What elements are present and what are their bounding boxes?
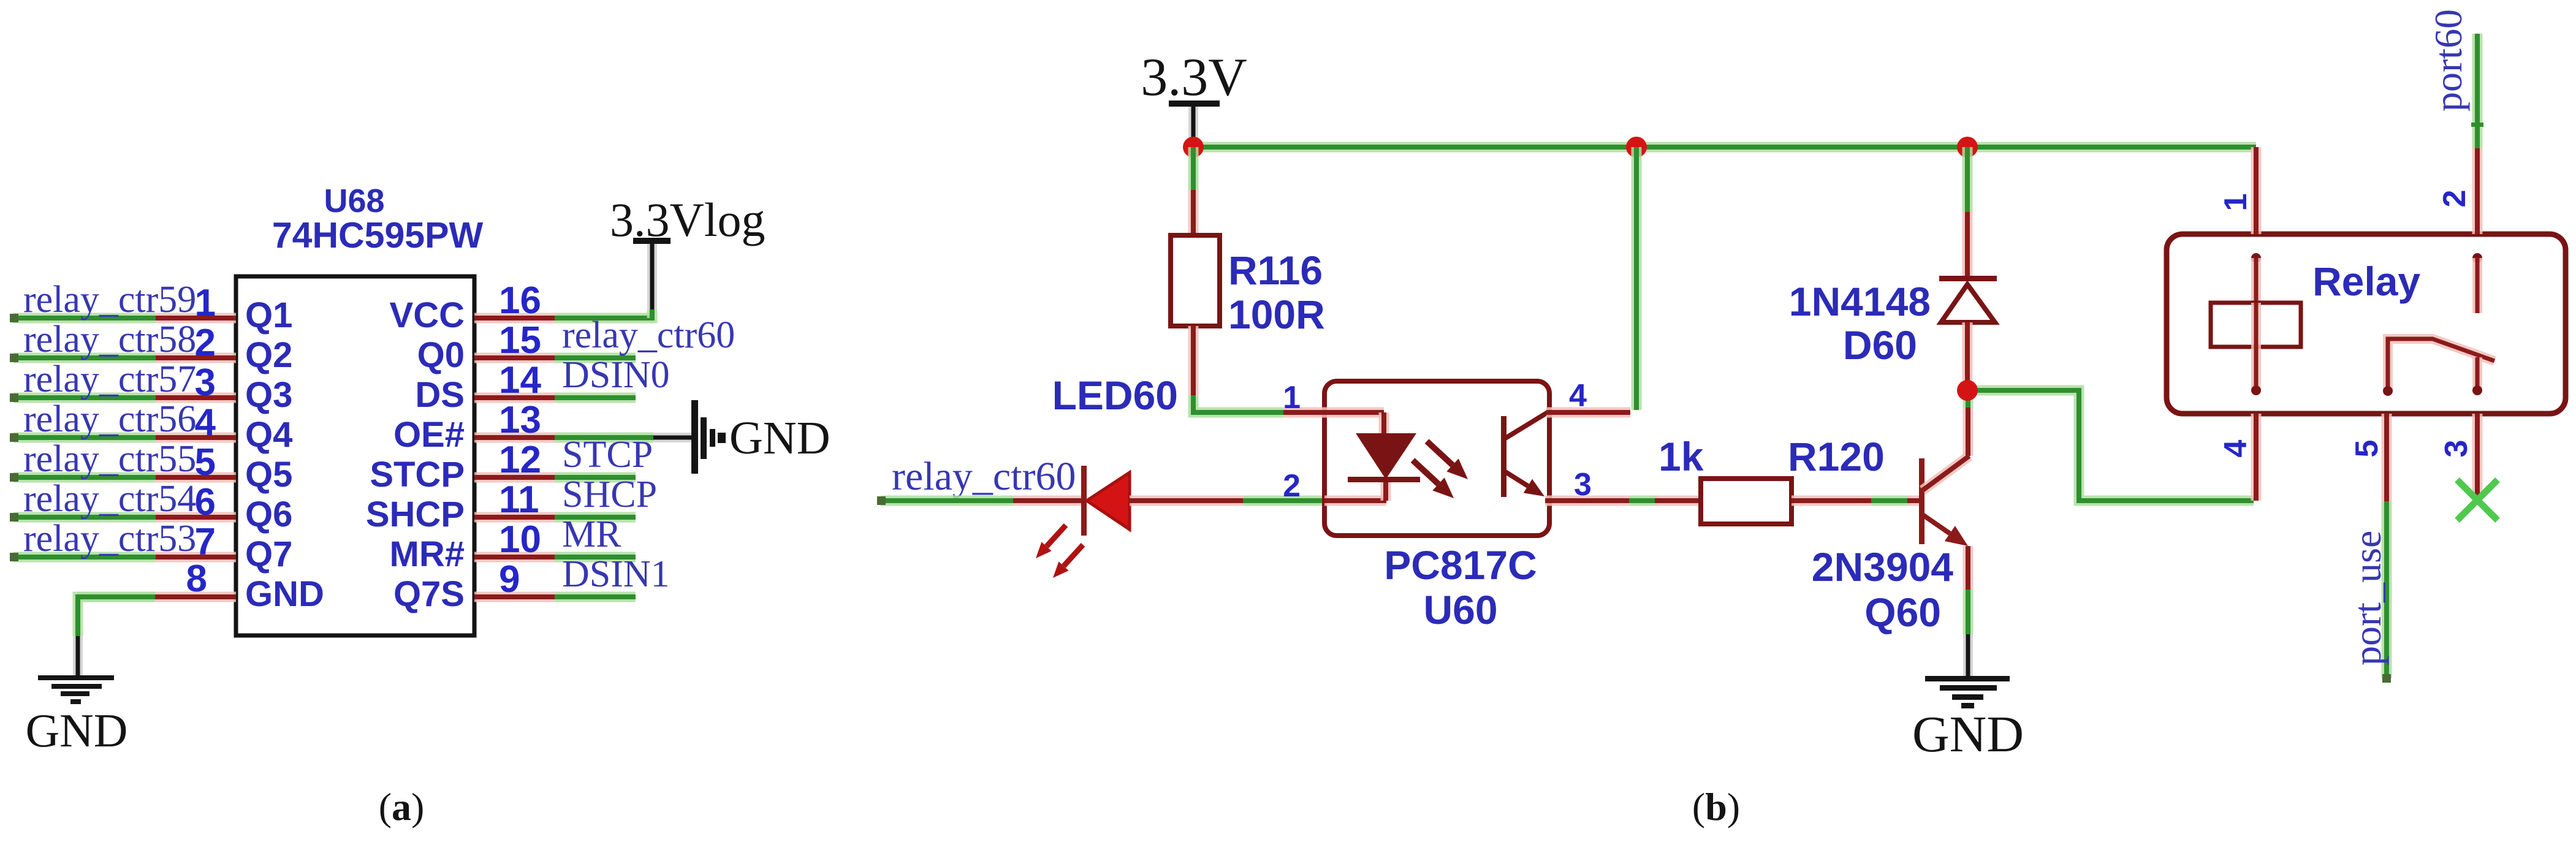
pin 1 of U60 bbox=[1283, 408, 1384, 418]
IC U68 74HC595PW body bbox=[236, 276, 474, 635]
wire from pin 14 bbox=[555, 393, 636, 403]
net label DSIN1 bbox=[562, 553, 670, 595]
pin name VCC bbox=[390, 295, 465, 335]
net label STCP bbox=[562, 434, 653, 476]
pin number 3 bbox=[195, 362, 216, 404]
pin name Q3 bbox=[245, 375, 292, 415]
wire net port_use bbox=[2382, 501, 2391, 683]
svg-text:SHCP: SHCP bbox=[366, 495, 465, 534]
pin name Q1 bbox=[245, 295, 292, 335]
IC U68 refdes label bbox=[324, 183, 384, 219]
svg-text:5: 5 bbox=[195, 441, 216, 484]
svg-text:GND: GND bbox=[26, 704, 128, 757]
relay body bbox=[2167, 234, 2566, 414]
svg-text:GND: GND bbox=[245, 574, 324, 614]
pin number 1 (U60) bbox=[1283, 380, 1301, 415]
wire from pin 11 bbox=[555, 512, 636, 523]
svg-text:Q60: Q60 bbox=[1864, 590, 1941, 635]
svg-text:4: 4 bbox=[195, 401, 216, 444]
junction node D60 anode bbox=[1957, 380, 1978, 401]
svg-text:10: 10 bbox=[499, 518, 541, 561]
svg-text:relay_ctr60: relay_ctr60 bbox=[892, 454, 1076, 499]
svg-text:11: 11 bbox=[499, 479, 539, 521]
pin name Q6 bbox=[245, 495, 292, 534]
svg-text:15: 15 bbox=[499, 319, 541, 362]
svg-text:LED60: LED60 bbox=[1052, 373, 1178, 418]
caption (a) bbox=[379, 785, 425, 829]
resistor R116 bbox=[1171, 235, 1220, 326]
svg-text:7: 7 bbox=[195, 521, 216, 563]
pin 4 of U60 bbox=[1546, 408, 1630, 418]
svg-text:D60: D60 bbox=[1843, 322, 1917, 368]
ground GND (pin 13) bbox=[691, 400, 830, 474]
svg-text:R116: R116 bbox=[1228, 248, 1323, 293]
pin number 5 bbox=[195, 441, 216, 484]
wire Q60 collector to node bbox=[1963, 395, 1974, 456]
wire net port60 bbox=[2471, 34, 2483, 148]
net label port60 bbox=[2426, 9, 2470, 112]
wire from pin 13 bbox=[555, 433, 653, 443]
net label relay_ctr55 bbox=[23, 438, 196, 480]
label PC817C bbox=[1384, 542, 1537, 588]
transistor Q60 bbox=[1919, 456, 1969, 546]
pin name DS bbox=[415, 375, 465, 415]
svg-text:3: 3 bbox=[1574, 467, 1592, 503]
power symbol 3.3V bbox=[1141, 48, 1247, 140]
svg-text:74HC595PW: 74HC595PW bbox=[272, 215, 484, 256]
net label relay_ctr53 bbox=[23, 518, 196, 559]
pin name Q2 bbox=[245, 335, 292, 375]
pin name Q5 bbox=[245, 455, 292, 495]
relay contact pin3 side bbox=[2472, 357, 2482, 395]
junction above opto pin4 bbox=[1626, 137, 1647, 157]
wire rail to relay pin 1 bbox=[2251, 147, 2262, 234]
svg-text:VCC: VCC bbox=[390, 295, 465, 335]
net label port_use bbox=[2346, 531, 2389, 666]
pin 4 of relay bbox=[2251, 414, 2262, 501]
pin number 2 bbox=[195, 322, 216, 364]
label Relay bbox=[2312, 259, 2420, 304]
pin name MR# bbox=[390, 534, 465, 574]
svg-text:MR#: MR# bbox=[390, 534, 465, 574]
pin number 14 bbox=[499, 359, 541, 401]
pin 2 of U60 bbox=[1324, 496, 1386, 506]
svg-text:1k: 1k bbox=[1658, 434, 1704, 479]
relay switch blade bbox=[2383, 339, 2494, 396]
svg-text:Q3: Q3 bbox=[245, 375, 292, 415]
relay contact pin2 side bbox=[2472, 253, 2482, 313]
svg-text:GND: GND bbox=[729, 412, 830, 464]
optocoupler U60 body bbox=[1324, 381, 1549, 536]
pin 15 of U68 bbox=[474, 353, 555, 363]
pin name GND bbox=[245, 574, 324, 614]
pin number 3 (relay) bbox=[2439, 440, 2474, 458]
pin number 7 bbox=[195, 521, 216, 563]
wire pin13 to GND bbox=[653, 433, 693, 442]
net label MR bbox=[562, 514, 621, 555]
wire pin8 to ground bbox=[78, 597, 155, 677]
caption (b) bbox=[1692, 785, 1740, 829]
pin number 2 (U60) bbox=[1283, 468, 1301, 504]
svg-text:U68: U68 bbox=[324, 183, 384, 219]
svg-text:Q4: Q4 bbox=[245, 415, 292, 455]
svg-text:3: 3 bbox=[195, 362, 216, 404]
svg-text:(b): (b) bbox=[1692, 785, 1740, 829]
ground GND (pin 8) bbox=[26, 675, 128, 757]
svg-text:14: 14 bbox=[499, 359, 541, 401]
wire R116 to LED60 node bbox=[1193, 326, 1283, 412]
wire from pin 15 bbox=[555, 353, 636, 363]
pin number 4 (relay) bbox=[2218, 439, 2254, 457]
svg-text:Q7S: Q7S bbox=[393, 574, 465, 614]
junction at 3.3V bbox=[1183, 137, 1204, 157]
pin number 8 bbox=[186, 558, 207, 600]
svg-text:port60: port60 bbox=[2426, 9, 2470, 112]
svg-text:STCP: STCP bbox=[370, 455, 465, 495]
pin number 2 (relay) bbox=[2437, 190, 2472, 208]
label R120 bbox=[1788, 434, 1885, 479]
wire R120 to Q60 base bbox=[1791, 496, 1922, 506]
pin number 6 bbox=[195, 481, 216, 523]
net label relay_ctr59 bbox=[23, 279, 196, 320]
svg-text:2: 2 bbox=[2437, 190, 2472, 208]
pin 16 of U68 bbox=[474, 313, 555, 324]
wire net relay_ctr55 (pin 5) bbox=[10, 473, 156, 482]
net label relay_ctr58 bbox=[23, 319, 196, 360]
svg-text:port_use: port_use bbox=[2346, 531, 2389, 666]
svg-text:13: 13 bbox=[499, 399, 541, 441]
wire D60 node to relay pin4 bbox=[1967, 390, 2254, 501]
pin number 9 bbox=[499, 558, 520, 601]
pin number 13 bbox=[499, 399, 541, 441]
led LED60 bbox=[1036, 466, 1130, 578]
wire net relay_ctr59 (pin 1) bbox=[10, 314, 156, 322]
svg-text:1: 1 bbox=[1283, 380, 1301, 415]
svg-text:1N4148: 1N4148 bbox=[1789, 279, 1931, 324]
wire from pin 10 bbox=[555, 552, 636, 563]
svg-text:12: 12 bbox=[499, 439, 541, 481]
wire rail to D60 bbox=[1962, 147, 1973, 279]
label 2N3904 bbox=[1812, 544, 1953, 590]
label LED60 bbox=[1052, 373, 1178, 418]
pin number 5 (relay) bbox=[2349, 440, 2385, 458]
svg-text:Q1: Q1 bbox=[245, 295, 292, 335]
wire net relay_ctr58 (pin 2) bbox=[10, 354, 156, 362]
svg-text:PC817C: PC817C bbox=[1384, 542, 1537, 588]
wire rail to R116 bbox=[1188, 147, 1199, 235]
svg-text:R120: R120 bbox=[1788, 434, 1885, 479]
label Q60 bbox=[1864, 590, 1941, 635]
svg-text:Q2: Q2 bbox=[245, 335, 292, 375]
pin name Q4 bbox=[245, 415, 292, 455]
wire port60 to relay pin 2 bbox=[2472, 148, 2483, 234]
svg-text:6: 6 bbox=[195, 481, 216, 523]
pin number 1 bbox=[195, 282, 216, 324]
pin name Q0 bbox=[417, 335, 465, 375]
pin name Q7 bbox=[245, 534, 292, 574]
pin number 12 bbox=[499, 439, 541, 481]
wire LED60 to opto pin2 bbox=[1130, 496, 1324, 506]
ground GND (Q60 emitter) bbox=[1912, 676, 2024, 763]
label 1N4148 bbox=[1789, 279, 1931, 324]
wire pin16 to 3.3Vlog riser bbox=[651, 309, 652, 318]
svg-text:DSIN1: DSIN1 bbox=[562, 553, 670, 595]
wire from pin 9 bbox=[555, 592, 636, 602]
net label relay_ctr57 bbox=[23, 358, 196, 400]
svg-text:DS: DS bbox=[415, 375, 465, 415]
svg-text:5: 5 bbox=[2349, 440, 2385, 458]
net label relay_ctr60 bbox=[562, 314, 735, 356]
net label relay_ctr56 bbox=[23, 398, 196, 440]
wire net relay_ctr57 (pin 3) bbox=[10, 393, 156, 402]
diode D60 bbox=[1939, 276, 1997, 381]
pin 4 of U68 bbox=[156, 433, 236, 443]
svg-text:STCP: STCP bbox=[562, 434, 653, 476]
wire to LED60 cathode bbox=[1013, 496, 1082, 506]
wire net relay_ctr54 (pin 6) bbox=[10, 513, 156, 522]
wire 3.3V power rail bbox=[1193, 142, 2256, 153]
svg-text:Relay: Relay bbox=[2312, 259, 2420, 304]
label 100R bbox=[1228, 292, 1325, 337]
svg-text:3: 3 bbox=[2439, 440, 2474, 458]
svg-text:100R: 100R bbox=[1228, 292, 1325, 337]
label U60 bbox=[1423, 587, 1497, 632]
pin 10 of U68 bbox=[474, 552, 555, 563]
label D60 bbox=[1843, 322, 1917, 368]
wire from pin 16 bbox=[555, 313, 653, 324]
net label relay_ctr54 bbox=[23, 478, 196, 520]
pin name Q7S bbox=[393, 574, 465, 614]
svg-text:(a): (a) bbox=[379, 785, 425, 829]
pin 12 of U68 bbox=[474, 472, 555, 483]
svg-text:MR: MR bbox=[562, 514, 621, 555]
pin number 3 (U60) bbox=[1574, 467, 1592, 503]
svg-text:2N3904: 2N3904 bbox=[1812, 544, 1953, 590]
svg-text:2: 2 bbox=[195, 322, 216, 364]
pin number 15 bbox=[499, 319, 541, 362]
net label relay_ctr60 (b) bbox=[892, 454, 1076, 499]
svg-text:Q7: Q7 bbox=[245, 534, 292, 574]
resistor R120 bbox=[1701, 479, 1791, 524]
pin name SHCP bbox=[366, 495, 465, 534]
wire opto pin3 to R120 bbox=[1629, 496, 1701, 506]
svg-text:U60: U60 bbox=[1423, 587, 1497, 632]
svg-text:OE#: OE# bbox=[393, 415, 465, 455]
pin 3 of relay bbox=[2472, 414, 2483, 498]
pin 14 of U68 bbox=[474, 393, 555, 403]
wire net relay_ctr60 bbox=[877, 496, 1013, 505]
svg-text:DSIN0: DSIN0 bbox=[562, 354, 670, 396]
wire net relay_ctr53 (pin 7) bbox=[10, 553, 156, 561]
pin number 11 bbox=[499, 479, 539, 521]
pin 6 of U68 bbox=[156, 512, 236, 523]
pin 11 of U68 bbox=[474, 512, 555, 523]
wire from pin 12 bbox=[555, 472, 636, 483]
pin number 4 (U60) bbox=[1569, 378, 1587, 414]
svg-text:4: 4 bbox=[1569, 378, 1587, 414]
svg-text:relay_ctr60: relay_ctr60 bbox=[562, 314, 735, 356]
svg-text:Q0: Q0 bbox=[417, 335, 465, 375]
opto phototransistor bbox=[1501, 412, 1548, 497]
svg-text:3.3Vlog: 3.3Vlog bbox=[610, 193, 766, 246]
pin 5 of U68 bbox=[156, 472, 236, 483]
label 1k bbox=[1658, 434, 1704, 479]
opto internal LED bbox=[1348, 412, 1420, 501]
pin number 4 bbox=[195, 401, 216, 444]
svg-text:8: 8 bbox=[186, 558, 207, 600]
wire opto pin4 to rail bbox=[1632, 147, 1642, 410]
pin 1 of U68 bbox=[156, 313, 236, 324]
svg-text:4: 4 bbox=[2218, 439, 2254, 457]
pin name OE# bbox=[393, 415, 465, 455]
svg-text:1: 1 bbox=[2218, 194, 2254, 211]
wire net relay_ctr56 (pin 4) bbox=[10, 433, 156, 442]
opto light arrows bbox=[1413, 441, 1468, 498]
svg-text:1: 1 bbox=[195, 282, 216, 324]
svg-text:2: 2 bbox=[1283, 468, 1301, 504]
junction above D60 bbox=[1957, 137, 1978, 157]
net label SHCP bbox=[562, 474, 657, 515]
relay coil bbox=[2211, 253, 2301, 395]
pin 3 of U60 bbox=[1545, 496, 1629, 506]
svg-text:9: 9 bbox=[499, 558, 520, 601]
pin number 1 (relay) bbox=[2218, 194, 2254, 211]
pin 3 of U68 bbox=[156, 393, 236, 403]
pin 13 of U68 bbox=[474, 433, 555, 443]
pin 7 of U68 bbox=[156, 552, 236, 563]
IC U68 value label 74HC595PW bbox=[272, 215, 484, 256]
svg-text:3.3V: 3.3V bbox=[1141, 48, 1247, 107]
svg-text:16: 16 bbox=[499, 279, 541, 322]
label R116 bbox=[1228, 248, 1323, 293]
svg-text:SHCP: SHCP bbox=[562, 474, 657, 515]
pin 9 of U68 bbox=[474, 592, 555, 602]
net label DSIN0 bbox=[562, 354, 670, 396]
wire Q60 emitter to ground bbox=[1963, 546, 1974, 678]
wire GND net to pin 8 bbox=[78, 592, 155, 602]
power symbol 3.3Vlog bbox=[610, 193, 766, 309]
pin 5 of relay bbox=[2382, 414, 2392, 501]
svg-text:Q5: Q5 bbox=[245, 455, 292, 495]
svg-text:GND: GND bbox=[1912, 706, 2024, 763]
pin 2 of U68 bbox=[156, 353, 236, 363]
pin number 10 bbox=[499, 518, 541, 561]
svg-text:Q6: Q6 bbox=[245, 495, 292, 534]
pin number 16 bbox=[499, 279, 541, 322]
pin name STCP bbox=[370, 455, 465, 495]
pin 8 of U68 bbox=[155, 592, 236, 602]
no-connect X on pin 3 bbox=[2457, 480, 2498, 520]
